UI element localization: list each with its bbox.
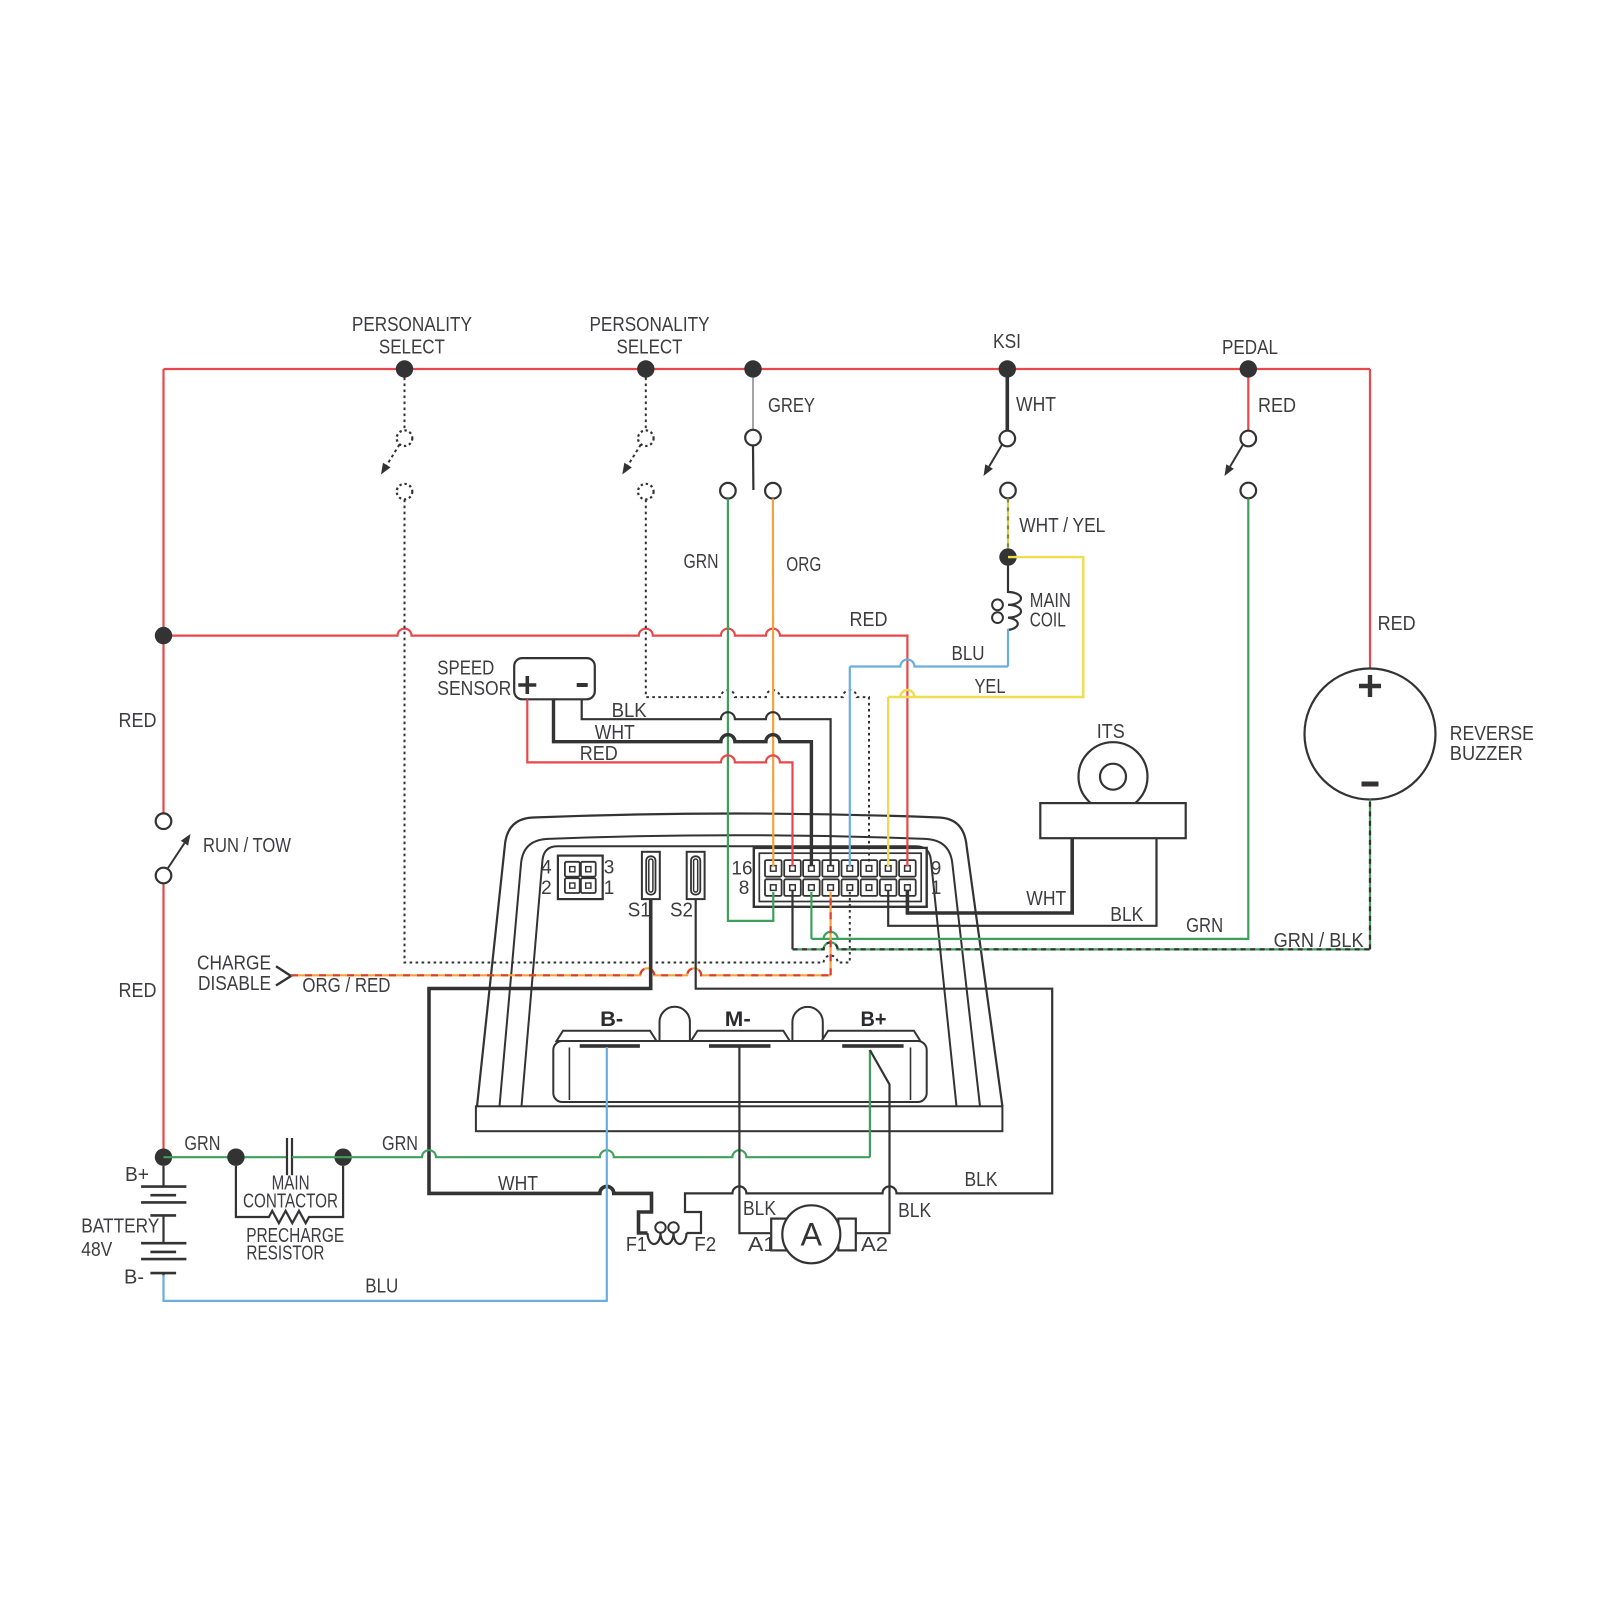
wire BLK F2 to S2 bbox=[685, 899, 1052, 1233]
svg-text:B-: B- bbox=[124, 1267, 144, 1289]
svg-text:BLK: BLK bbox=[743, 1198, 777, 1220]
switch PS1 actuator arrow bbox=[387, 445, 400, 466]
resistor PRECHARGE RESISTOR bbox=[236, 1166, 343, 1223]
terminal dome right bbox=[792, 1007, 822, 1041]
svg-text:A2: A2 bbox=[861, 1234, 888, 1256]
switch PS2 actuator arrow bbox=[628, 445, 641, 466]
svg-text:F2: F2 bbox=[694, 1234, 716, 1256]
terminal pad B- bbox=[557, 1031, 657, 1041]
wire speed sensor BLK to pin 13 bbox=[582, 699, 831, 866]
wire red drop RUN/TOW to battery B+ bbox=[162, 883, 164, 1157]
wire GRN from grey switch to pin 8 bbox=[728, 499, 773, 921]
wire speed sensor WHT to pin 14 bbox=[554, 699, 812, 866]
svg-text:F1: F1 bbox=[626, 1234, 647, 1256]
svg-text:YEL: YEL bbox=[975, 676, 1006, 698]
controller outer case outline bbox=[477, 814, 1002, 1107]
controller power terminal bar bbox=[553, 1041, 926, 1102]
svg-text:BUZZER: BUZZER bbox=[1450, 743, 1523, 765]
svg-text:1: 1 bbox=[604, 878, 615, 899]
wire GRN contactor to B+ terminal bbox=[343, 1150, 870, 1157]
wire PEDAL red lead bbox=[1247, 378, 1249, 431]
svg-text:KSI: KSI bbox=[993, 331, 1021, 353]
svg-text:4: 4 bbox=[541, 858, 552, 879]
node junction dot battery B+ bbox=[155, 1149, 172, 1166]
svg-text:RED: RED bbox=[1258, 395, 1296, 417]
wire PS2 dotted to pin 11 bbox=[646, 500, 869, 866]
switch KSI upper contact bbox=[1000, 431, 1016, 447]
svg-text:BLU: BLU bbox=[365, 1276, 398, 1298]
connector 16-pin controller header bbox=[754, 848, 927, 907]
switch KSI actuator arrow bbox=[989, 445, 1002, 467]
svg-text:S2: S2 bbox=[670, 900, 693, 922]
svg-text:ORG: ORG bbox=[786, 554, 821, 576]
node junction dot KSI bbox=[999, 360, 1016, 377]
svg-text:WHT: WHT bbox=[1016, 394, 1056, 416]
motor armature A bbox=[782, 1205, 840, 1263]
coil MAIN COIL bbox=[1008, 592, 1021, 630]
node junction dot PERSONALITY SELECT 1 bbox=[396, 360, 413, 377]
switch GREY throw contact ORG side bbox=[765, 483, 781, 499]
switch PEDAL actuator arrow bbox=[1230, 445, 1243, 467]
svg-text:REVERSE: REVERSE bbox=[1450, 723, 1534, 745]
svg-text:S1: S1 bbox=[628, 900, 651, 922]
svg-text:RED: RED bbox=[850, 609, 888, 631]
component SPEED SENSOR box bbox=[514, 658, 595, 699]
svg-text:SELECT: SELECT bbox=[379, 337, 445, 359]
contactor MAIN CONTACTOR contacts bbox=[286, 1138, 288, 1175]
svg-text:WHT: WHT bbox=[498, 1173, 538, 1195]
wire main coil top lead bbox=[1007, 566, 1009, 593]
svg-text:GRN: GRN bbox=[382, 1133, 418, 1155]
component REVERSE BUZZER bbox=[1305, 669, 1436, 800]
svg-text:WHT: WHT bbox=[1026, 888, 1066, 910]
svg-text:PERSONALITY: PERSONALITY bbox=[352, 314, 472, 336]
svg-text:BATTERY: BATTERY bbox=[81, 1216, 159, 1238]
svg-text:GREY: GREY bbox=[768, 395, 815, 417]
switch GREY upper contact bbox=[745, 430, 761, 446]
svg-text:RED: RED bbox=[1378, 613, 1416, 635]
switch RUN/TOW lower contact bbox=[156, 868, 172, 884]
svg-text:DISABLE: DISABLE bbox=[198, 973, 271, 995]
svg-text:BLK: BLK bbox=[612, 700, 648, 722]
node junction dot GREY switch bbox=[744, 360, 761, 377]
wire red supply right drop (to reverse buzzer +) bbox=[1369, 369, 1371, 669]
switch PS2 dashed lead from bus bbox=[645, 378, 647, 431]
controller base plate bbox=[476, 1106, 1003, 1131]
wire BLK M- to A1 bbox=[739, 1047, 770, 1233]
wire WHT pin 1 to ITS bbox=[907, 838, 1072, 913]
switch PS2 lower contact bbox=[638, 484, 654, 500]
wire BLU battery B- to controller B- bbox=[164, 1047, 607, 1301]
wire GRN battery to contactor bbox=[164, 1156, 288, 1158]
switch PEDAL lower contact bbox=[1241, 483, 1257, 499]
switch RUN/TOW actuator arrow bbox=[168, 843, 184, 868]
svg-text:BLK: BLK bbox=[898, 1200, 932, 1222]
wire ORG/RED charge disable to pin 5 bbox=[291, 968, 831, 975]
svg-text:9: 9 bbox=[931, 859, 942, 880]
svg-text:A: A bbox=[801, 1217, 823, 1253]
terminal pad B+ bbox=[822, 1031, 921, 1041]
wire GRN/BLK buzzer to pin 7 bbox=[791, 890, 793, 949]
node junction dot red bus/left drop bbox=[155, 627, 172, 644]
svg-text:B+: B+ bbox=[861, 1008, 887, 1031]
wire GRN pedal to pin 6 bbox=[811, 498, 1248, 939]
switch KSI lower contact bbox=[1000, 483, 1016, 499]
component ITS bar bbox=[1040, 803, 1185, 838]
controller inner case outline bbox=[500, 835, 981, 1106]
terminal dome left bbox=[660, 1007, 690, 1041]
svg-text:GRN / BLK: GRN / BLK bbox=[1274, 930, 1365, 952]
node junction dot contactor left bbox=[227, 1149, 244, 1166]
node junction dot main coil bbox=[999, 548, 1016, 565]
svg-text:RESISTOR: RESISTOR bbox=[246, 1243, 324, 1265]
node junction dot PEDAL bbox=[1240, 360, 1257, 377]
switch GREY throw contact GRN side bbox=[720, 483, 736, 499]
switch PS2 upper contact bbox=[638, 430, 654, 446]
svg-text:RUN / TOW: RUN / TOW bbox=[203, 835, 291, 857]
component ITS ring hole bbox=[1100, 764, 1126, 790]
svg-text:CHARGE: CHARGE bbox=[197, 952, 271, 974]
svg-text:SENSOR: SENSOR bbox=[437, 678, 511, 700]
connector 4-pin programmer port bbox=[558, 856, 603, 900]
switch PEDAL upper contact bbox=[1241, 431, 1257, 447]
svg-text:48V: 48V bbox=[81, 1239, 113, 1261]
wire WHT/YEL dashed bbox=[1007, 498, 1009, 548]
wire BLK pin 2 to ITS bbox=[888, 838, 1156, 926]
svg-text:RED: RED bbox=[580, 743, 618, 765]
node junction dot PERSONALITY SELECT 2 bbox=[637, 360, 654, 377]
svg-text:ORG / RED: ORG / RED bbox=[302, 975, 390, 997]
svg-text:SPEED: SPEED bbox=[437, 658, 494, 680]
wire ORG from grey switch to pin 16 bbox=[772, 499, 775, 867]
svg-text:1: 1 bbox=[931, 878, 942, 899]
svg-text:M-: M- bbox=[725, 1008, 751, 1031]
switch PS1 dashed lead from bus bbox=[404, 378, 406, 431]
battery BATTERY 48V bbox=[162, 1166, 164, 1187]
svg-text:PERSONALITY: PERSONALITY bbox=[590, 314, 710, 336]
svg-text:GRN: GRN bbox=[684, 551, 719, 573]
wire red supply left drop (to RUN/TOW) bbox=[162, 369, 164, 813]
svg-text:COIL: COIL bbox=[1030, 610, 1066, 632]
wire YEL main coil to pin 10 bbox=[888, 557, 1083, 697]
switch RUN/TOW upper contact bbox=[156, 813, 172, 829]
svg-text:A1: A1 bbox=[748, 1234, 776, 1256]
controller inner connector-bay outline bbox=[522, 846, 957, 1106]
wire red feed to pin 9 bbox=[164, 629, 908, 866]
connector S1 bbox=[642, 852, 660, 899]
svg-text:8: 8 bbox=[739, 878, 750, 899]
switch PS1 upper contact bbox=[397, 430, 413, 446]
node charge disable chevron bbox=[276, 966, 291, 985]
wire BLU main coil to pin 12 bbox=[1007, 629, 1009, 667]
label buzzer minus bbox=[1362, 782, 1379, 787]
svg-text:RED: RED bbox=[119, 980, 157, 1002]
svg-text:PEDAL: PEDAL bbox=[1222, 337, 1278, 359]
wire WHT S1 to F1 (thick) bbox=[429, 899, 652, 1233]
svg-text:2: 2 bbox=[541, 878, 552, 899]
svg-text:GRN: GRN bbox=[1186, 915, 1223, 937]
motor terminal A2 bbox=[838, 1219, 855, 1251]
label buzzer plus bbox=[1359, 675, 1381, 697]
inductor field coil F1-F2 bbox=[648, 1233, 687, 1244]
switch GREY pole bbox=[752, 445, 755, 490]
svg-text:B+: B+ bbox=[125, 1164, 149, 1186]
motor terminal A1 bbox=[771, 1219, 793, 1251]
wire grey lead bbox=[752, 378, 754, 430]
wire BLK B+ to A2 bbox=[857, 1050, 890, 1233]
wire PS1 dotted to pin 4 bbox=[405, 500, 850, 963]
svg-text:GRN: GRN bbox=[184, 1133, 220, 1155]
svg-text:BLK: BLK bbox=[1110, 904, 1144, 926]
svg-text:WHT / YEL: WHT / YEL bbox=[1019, 515, 1105, 537]
svg-text:RED: RED bbox=[119, 710, 157, 732]
component ITS ring bbox=[1079, 742, 1148, 811]
svg-text:WHT: WHT bbox=[595, 722, 635, 744]
wire speed sensor RED to pin 15 bbox=[527, 699, 792, 866]
wire red supply bus (top) bbox=[164, 368, 1371, 370]
switch PS1 lower contact bbox=[397, 484, 413, 500]
label speed sensor plus bbox=[518, 676, 536, 694]
svg-text:ITS: ITS bbox=[1097, 721, 1125, 743]
svg-text:BLU: BLU bbox=[952, 643, 985, 665]
svg-text:16: 16 bbox=[731, 859, 752, 880]
label speed sensor minus bbox=[577, 683, 588, 687]
svg-text:CONTACTOR: CONTACTOR bbox=[243, 1191, 338, 1213]
terminal pad M- bbox=[691, 1031, 790, 1041]
svg-text:B-: B- bbox=[600, 1008, 623, 1031]
wire KSI thick lead WHT bbox=[1005, 369, 1009, 431]
svg-text:BLK: BLK bbox=[965, 1169, 999, 1191]
node junction dot contactor right bbox=[334, 1149, 351, 1166]
svg-text:SELECT: SELECT bbox=[617, 337, 683, 359]
connector S2 bbox=[687, 852, 705, 899]
svg-text:3: 3 bbox=[604, 858, 615, 879]
